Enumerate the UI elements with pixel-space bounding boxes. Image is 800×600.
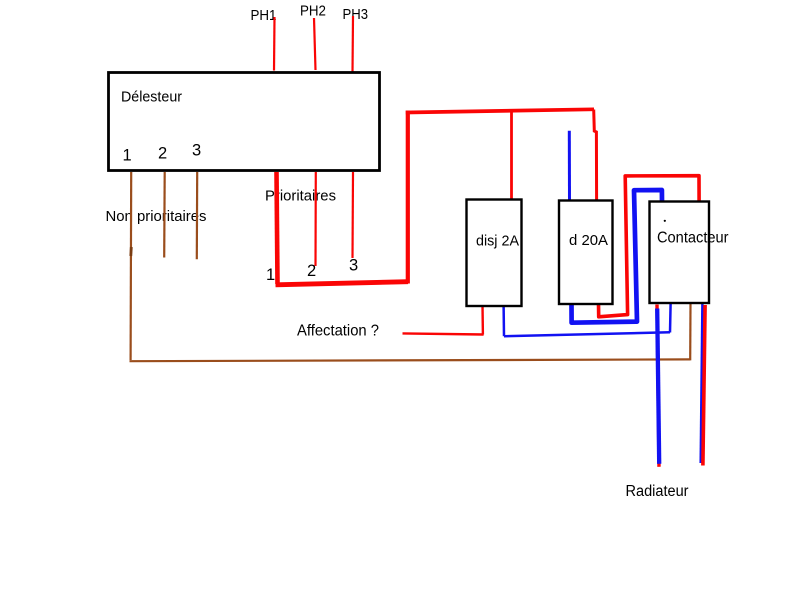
wire thick red top horizontal (406, 109, 594, 112)
svg-text:Contacteur: Contacteur (657, 229, 729, 246)
svg-text:Radiateur: Radiateur (626, 483, 689, 500)
wire blue thick staple d20A bottom to contacteur top (572, 190, 663, 323)
svg-text:PH3: PH3 (343, 7, 369, 23)
wire blue thin horizontal to contacteur (504, 332, 670, 336)
wire blue thin vertical up to contacteur bottom (669, 304, 672, 333)
svg-text:1: 1 (266, 266, 275, 284)
wire PH1 red (273, 17, 276, 71)
wire red affectation vertical under disj 2A (481, 305, 484, 335)
wire non-prioritaire 2 brown (163, 172, 166, 258)
svg-text:d 20A: d 20A (569, 232, 608, 249)
contacteur box (650, 202, 710, 304)
wire red affectation horizontal (403, 333, 484, 334)
wire red drop to d 20A (with kink) (594, 110, 597, 201)
wire prioritaire 3 red (351, 172, 354, 258)
delesteur box (109, 73, 380, 171)
svg-text:3: 3 (192, 142, 201, 160)
wire red radiateur line right (703, 305, 705, 466)
wire red staple d20A bottom to contacteur top (599, 176, 700, 317)
svg-text:disj 2A: disj 2A (476, 233, 519, 250)
wire PH2 red (314, 18, 316, 70)
svg-text:2: 2 (158, 145, 167, 163)
wire blue thin beside red under contacteur (701, 304, 703, 463)
wire thick red left vertical riser (406, 111, 410, 284)
wire brown long horizontal to contacteur (130, 359, 691, 361)
wire blue thin under disj 2A (502, 305, 505, 336)
wire red drop to disj 2A (510, 111, 513, 200)
wire blue thick radiateur line (657, 309, 659, 464)
wire blue drop to d 20A (568, 131, 571, 201)
small ink dot above Contacteur (664, 220, 666, 222)
wire brown vertical up to contacteur bottom (689, 304, 691, 360)
svg-text:PH2: PH2 (300, 4, 326, 20)
wire PH3 red (351, 16, 354, 73)
svg-text:1: 1 (123, 147, 132, 165)
wire prioritaire 2 red (314, 172, 316, 266)
svg-text:PH1: PH1 (251, 8, 277, 24)
darker overlap kink on non-prioritaire 1 (129, 247, 132, 256)
wire thick red bottom horizontal (276, 282, 409, 285)
svg-text:Non prioritaires: Non prioritaires (106, 208, 207, 225)
svg-text:Délesteur: Délesteur (121, 89, 182, 106)
wire non-prioritaire 1 brown (130, 172, 133, 360)
wire non-prioritaire 3 brown (196, 172, 199, 259)
disj 2A box (467, 200, 522, 307)
wire prioritaire 1 thick red vertical (277, 172, 278, 284)
svg-text:2: 2 (307, 262, 316, 280)
wire red line underneath radiateur blue line (657, 305, 659, 467)
svg-text:Affectation ?: Affectation ? (297, 322, 379, 339)
svg-text:3: 3 (349, 257, 358, 275)
d 20A box (559, 201, 613, 305)
